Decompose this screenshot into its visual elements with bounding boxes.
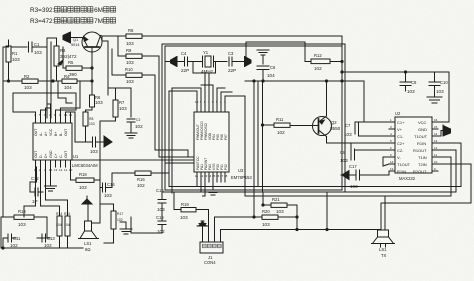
wire R9 drop [158,56,160,157]
wire mcu pin12 route [172,182,201,192]
svg-text:18: 18 [224,174,228,178]
svg-text:LS1: LS1 [84,241,92,246]
svg-text:VCC: VCC [49,128,53,136]
wire loop left side [130,217,132,233]
svg-text:Y1: Y1 [203,50,209,55]
wire y192 long [172,191,456,193]
svg-text:12: 12 [434,146,438,150]
wire R17 column [99,142,101,223]
svg-text:14: 14 [434,132,438,136]
svg-text:8Ω: 8Ω [85,247,90,252]
svg-text:103: 103 [180,215,188,220]
wire R10 drop [154,75,156,150]
node junction x342 bus81 [341,80,343,82]
svg-text:C4: C4 [181,51,187,56]
node C6 junction [262,80,264,82]
ground above C6 [257,50,269,64]
mcu U3 [194,112,229,172]
node junction y230 [296,228,298,230]
svg-text:TX: TX [381,253,387,258]
svg-text:R16: R16 [137,177,145,182]
speaker LS1 [79,204,99,252]
svg-text:OUT: OUT [34,151,38,158]
svg-text:R17: R17 [117,212,123,216]
svg-text:C+: C+ [54,154,58,158]
wire bus y81 [245,80,364,82]
U3 bottom pins [195,172,228,182]
svg-text:V-: V- [397,155,401,160]
wire y196 long [245,195,451,197]
svg-text:102: 102 [137,183,145,188]
wire left border [2,47,4,217]
svg-text:102: 102 [135,124,143,129]
svg-text:103: 103 [79,185,87,190]
node junction y72 x342 [341,71,343,73]
node junction base/R5 [91,67,93,69]
ground under C2 [125,133,137,138]
svg-text:R14: R14 [56,212,62,216]
resistor R10 [112,67,155,84]
wire TX stem a [380,203,382,230]
wire x342 to U2 [342,142,389,144]
svg-text:U2: U2 [395,111,401,116]
svg-text:103: 103 [262,222,270,227]
svg-text:104: 104 [267,73,275,78]
svg-text:B-: B- [59,133,63,136]
svg-text:15: 15 [434,125,438,129]
U1 top pins [34,113,72,123]
svg-text:C14: C14 [107,182,115,187]
svg-text:103: 103 [276,209,284,214]
svg-text:R1: R1 [12,51,18,56]
wire staircase to mcu left [159,156,194,158]
wire vertical pair A [46,38,48,118]
wire R17 bottom stub [104,242,114,244]
ground at loop bottom [120,222,132,234]
crystal Y1 [201,50,227,74]
svg-text:10: 10 [434,160,438,164]
capacitor C7 [344,122,389,137]
svg-text:103: 103 [157,207,165,212]
svg-text:102: 102 [117,218,123,222]
svg-text:16: 16 [434,118,438,122]
svg-text:204: 204 [56,223,62,227]
svg-text:11: 11 [64,168,67,172]
svg-text:P52: P52 [224,164,228,170]
svg-text:R8: R8 [89,117,93,121]
wire mcu riser box [169,91,197,186]
wire C13 riser [42,217,47,238]
ground under U3 [207,182,219,195]
wire U1 pin risers [47,104,51,117]
svg-text:R10: R10 [125,67,133,72]
op-amp U1 [33,123,72,160]
resistor R14 [56,206,62,248]
svg-text:103: 103 [89,122,95,126]
wire VCC pin16 riser [438,72,449,122]
transistor Q1 [71,32,102,52]
wire Q1 base column [91,47,93,95]
svg-text:VCC: VCC [418,120,427,125]
wire U1 out row [72,159,194,161]
section box inner [165,46,342,190]
ground under C10 [427,97,442,103]
svg-text:C1-: C1- [397,134,404,139]
wire Q1 collector to top bus [101,35,119,38]
svg-text:104: 104 [64,85,72,90]
capacitor C17 [341,164,389,189]
svg-text:OUT: OUT [34,129,38,136]
wire C11 stubs [2,238,4,248]
capacitor C13 [37,234,55,248]
svg-text:R21: R21 [272,197,280,202]
wire R4 riser [79,81,81,84]
svg-text:103: 103 [90,149,98,154]
capacitor C16 [156,215,166,234]
node junction x254 bus [253,80,255,82]
transducer out arrow [438,125,451,136]
svg-text:102: 102 [44,243,52,248]
svg-text:C1: C1 [34,42,40,47]
U2 right pins [432,118,438,171]
resistor R20 [254,209,297,227]
svg-text:1P: 1P [32,199,38,204]
label U3 [231,168,252,180]
wire top-left rail [3,46,27,48]
svg-text:103: 103 [436,89,444,94]
svg-text:390: 390 [69,72,77,77]
wire y186 long [169,186,461,188]
svg-text:104: 104 [64,223,70,227]
svg-text:R3=472:: R3=472: [30,18,55,25]
svg-text:P67: P67 [224,134,228,140]
wire y42 rail [246,41,305,43]
svg-text:C16: C16 [156,215,164,220]
svg-text:OUT: OUT [64,151,68,158]
wire top rail R3 [47,37,57,39]
wire x245 drop [244,96,246,196]
svg-text:V+: V+ [397,127,403,132]
svg-text:R20: R20 [262,209,270,214]
wire Q2 col down [327,137,343,144]
wire R17 top tap [100,203,114,205]
svg-text:C1+: C1+ [397,120,405,125]
capacitor C9 [400,72,417,94]
wire pin11 route [438,157,451,196]
svg-text:T1OUT: T1OUT [414,134,428,139]
wire C15/C16 chain [161,173,163,200]
capacitor C14 [100,182,115,198]
svg-text:T1OUT: T1OUT [397,162,411,167]
svg-text:12: 12 [59,168,63,172]
label U2 [395,111,416,181]
resistor R18 [71,167,101,190]
svg-text:MAX232: MAX232 [399,176,416,181]
wire C14 to loop [112,173,135,188]
svg-text:C9: C9 [411,80,417,85]
J1 pins [203,230,221,243]
node junctions bottom bus [2,247,4,249]
svg-text:C7: C7 [345,123,351,128]
wire pin13 route [438,143,461,187]
svg-text:C6: C6 [270,65,276,70]
wire crystal sub-row [193,62,216,74]
svg-text:C-: C- [59,154,63,158]
resistor R5 [63,60,92,77]
capacitor C4 [181,51,202,73]
capacitor C12 [30,167,43,204]
svg-text:EM78P153: EM78P153 [231,175,252,180]
svg-text:D-: D- [39,154,43,158]
svg-text:C13: C13 [47,236,55,241]
svg-text:103: 103 [350,184,358,189]
svg-text:Q1: Q1 [73,38,78,42]
note text R3=472 [30,18,55,25]
capacitor C10 [429,72,448,97]
node arrow in [104,136,112,147]
resistor R7 [113,88,127,121]
svg-text:102: 102 [10,243,18,248]
transistor Q2 [311,116,341,137]
resistor R13 [1,209,47,227]
svg-text:R5: R5 [68,60,74,65]
wire R7 loop [108,88,131,117]
connector J1 CON4 [200,242,223,265]
ground under U1 pin [45,167,57,191]
svg-text:103: 103 [104,193,112,198]
wire R5 left drop [62,47,64,68]
wire pin12 route [438,150,456,192]
svg-text:22P: 22P [228,68,236,73]
resistor R21 [263,197,297,214]
svg-text:T1IN: T1IN [418,155,427,160]
wire arrow lead up [246,42,251,62]
resistor R4 [53,74,92,90]
wire riser R13 to U1 [24,167,36,217]
svg-text:R2OUT: R2OUT [413,169,427,174]
wire speaker to R17 [92,222,101,224]
ic U2 MAX232 [395,117,432,174]
wire bus y72 [342,71,449,73]
svg-text:C2-: C2- [397,148,404,153]
svg-text:103: 103 [407,89,415,94]
wire x342 from top bus [341,36,343,81]
svg-text:103: 103 [340,158,348,163]
svg-text:R3=392:: R3=392: [30,7,55,14]
wire mcu risers to crystal row [201,85,213,104]
svg-text:103: 103 [24,85,32,90]
resistor R19 [174,202,208,220]
resistor R15 [64,206,70,248]
svg-text:7M: 7M [94,18,103,25]
svg-text:103: 103 [126,41,134,46]
svg-text:103: 103 [12,57,20,62]
capacitor C11 [3,234,21,248]
ground on J1 pin1 [197,221,208,236]
svg-text:CON4: CON4 [204,260,216,265]
svg-text:R1IN: R1IN [417,141,426,146]
wire x258 drop [257,81,259,187]
wire Q1 collector branch down [102,36,108,95]
svg-text:13: 13 [54,168,58,172]
wire mcu pin11 route [169,182,197,187]
svg-text:103: 103 [119,106,127,111]
svg-text:8550: 8550 [330,126,341,131]
transducer RX arrow [165,57,185,67]
svg-text:C8: C8 [340,150,346,155]
wire J1 pin4 row y229 [221,229,382,231]
capacitor C8 [340,143,389,163]
microphone MIC1 [63,32,71,43]
wire J1 pin3 row y217 [215,217,255,230]
wire R1 top to C1 row [3,46,9,48]
wire y93 row [13,92,41,94]
svg-text:103: 103 [34,50,42,55]
wire y203 row [381,202,471,204]
svg-text:T2IN: T2IN [418,162,427,167]
svg-text:9014: 9014 [71,43,79,47]
svg-text:OUT: OUT [64,129,68,136]
label U1 [72,154,98,168]
svg-text:103: 103 [126,79,134,84]
svg-text:GND: GND [49,150,53,158]
resistor R3 [54,38,77,81]
svg-text:13: 13 [434,139,438,143]
wire x254 link [253,192,255,217]
svg-text:GND: GND [418,127,427,132]
svg-text:R15: R15 [64,212,70,216]
svg-text:R18: R18 [79,172,87,177]
svg-text:R1OUT: R1OUT [413,148,427,153]
wire C6 net down to R11 [262,81,264,192]
svg-text:13: 13 [390,167,394,171]
node junction base/R4 [91,80,93,82]
U1 bottom pins [34,160,73,172]
resistor R8a vertical [86,95,104,112]
svg-text:C2: C2 [136,118,140,122]
svg-text:C2+: C2+ [397,141,405,146]
wire R10 left column [111,49,113,75]
wire J1 pin2 to R19 [208,210,210,231]
node junction R2/R3 [52,80,54,82]
wire R7 bottom drop [100,121,116,142]
resistor R2 [3,74,53,90]
wire R19 feed [173,192,175,210]
svg-text:22P: 22P [181,68,189,73]
svg-text:R12: R12 [314,53,322,58]
svg-text:11: 11 [195,174,198,178]
node R3 arrow [58,60,63,65]
node junction y217 [253,216,255,218]
svg-text:C17: C17 [349,164,357,169]
svg-text:LMC6034AIM: LMC6034AIM [72,163,98,168]
svg-text:102: 102 [314,66,322,71]
wire osc to mcu pins [204,73,206,112]
svg-text:R19: R19 [181,202,189,207]
resistor R8 [118,28,152,46]
wire R21 left riser [262,193,264,205]
resistor R16 [135,171,168,188]
wire x327 drop [326,192,328,230]
note text R3=392 [30,7,55,14]
node junction C9 [404,71,406,73]
resistor R1 [6,40,20,81]
capacitor C2a coupling [75,137,104,154]
svg-text:B+: B+ [54,132,58,136]
plug LS2 TX [372,230,395,258]
svg-text:Q2: Q2 [331,120,337,125]
svg-text:U1: U1 [73,154,79,159]
capacitor C6 [257,65,276,81]
resistor R9 [118,48,159,65]
wire left column to R13 [0,217,2,248]
wire R12 left riser [304,42,306,62]
svg-text:C3: C3 [228,51,234,56]
svg-text:LS1: LS1 [379,247,387,252]
svg-text:A+: A+ [44,132,48,136]
resistor R11 [263,117,312,135]
capacitor C3 [228,51,240,73]
svg-text:103: 103 [126,60,134,65]
svg-text:D+: D+ [44,154,48,158]
node junction R1/R2 [7,80,9,82]
svg-text:R11: R11 [276,117,284,122]
wire x254 drop [253,81,255,192]
wire R8/R9 left column [117,36,119,56]
svg-text:103: 103 [18,222,26,227]
capacitor C2 [127,118,143,133]
wire V- pin to C17 [383,157,389,166]
resistor R6 vertical [83,112,95,141]
svg-text:103: 103 [344,132,352,137]
wire x364 drop to U2 [364,81,389,122]
wire R21 right drop [296,205,298,230]
wire pin10 route [438,164,471,203]
wire TX stem b [384,196,386,230]
resistor R12 [305,53,342,71]
wire risers R14 R15 [41,167,60,206]
U2 left pins [389,118,395,171]
node junction R12 right [341,60,343,62]
svg-text:R13: R13 [18,209,26,214]
ground triangle above LS1 [82,196,92,204]
svg-text:C10: C10 [440,80,448,85]
capacitor C15 [156,188,166,212]
svg-text:14: 14 [390,160,394,164]
capacitor C1 [29,42,48,55]
wire mcu pin13 route [203,182,206,196]
svg-text:C11: C11 [13,236,21,241]
wire vertical pair B [50,42,52,118]
svg-text:6M: 6M [94,7,103,14]
svg-text:U3: U3 [238,168,244,173]
svg-text:103: 103 [95,100,103,105]
section box outer [162,44,345,192]
wire bottom bus [1,247,83,249]
svg-text:R9: R9 [126,48,132,53]
svg-text:102: 102 [277,130,285,135]
svg-text:A-: A- [39,133,43,136]
svg-text:R2: R2 [24,74,30,79]
transducer TX arrow [240,57,251,67]
resistor R17 [111,204,123,243]
svg-text:R1IN: R1IN [397,169,406,174]
svg-text:11: 11 [434,153,437,157]
node junction R21 left [262,204,264,206]
svg-text:R8: R8 [128,28,134,33]
wire top bus y36 [152,35,342,37]
svg-text:R7: R7 [119,100,125,105]
